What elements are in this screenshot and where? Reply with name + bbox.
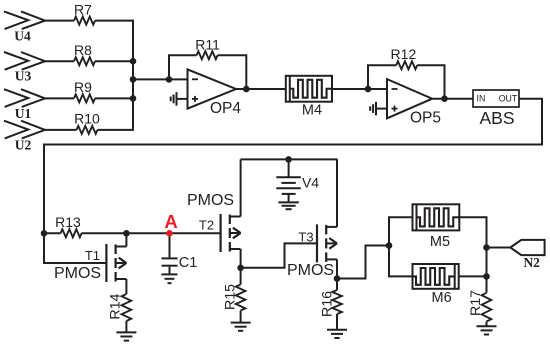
svg-text:R13: R13 [55, 214, 81, 230]
svg-text:A: A [164, 211, 177, 232]
svg-text:R15: R15 [222, 284, 238, 310]
svg-text:U2: U2 [15, 137, 32, 152]
svg-text:R9: R9 [74, 79, 92, 95]
svg-text:R7: R7 [74, 2, 92, 18]
svg-text:OP4: OP4 [210, 100, 241, 117]
svg-text:PMOS: PMOS [187, 192, 234, 209]
svg-text:V4: V4 [302, 175, 319, 191]
svg-text:C1: C1 [179, 255, 198, 271]
svg-text:IN: IN [477, 94, 486, 104]
svg-text:R10: R10 [74, 111, 100, 127]
svg-text:R17: R17 [468, 290, 484, 316]
svg-text:R14: R14 [108, 293, 124, 319]
svg-text:T1: T1 [85, 248, 100, 263]
svg-text:R11: R11 [195, 36, 220, 52]
svg-text:R12: R12 [391, 46, 417, 62]
svg-text:U1: U1 [15, 106, 32, 121]
svg-text:PMOS: PMOS [54, 265, 101, 282]
svg-text:PMOS: PMOS [287, 262, 334, 279]
svg-text:R8: R8 [74, 42, 92, 58]
svg-text:U3: U3 [15, 69, 32, 84]
svg-text:T3: T3 [298, 230, 313, 245]
svg-text:ABS: ABS [479, 108, 514, 128]
svg-text:R16: R16 [319, 291, 335, 317]
svg-text:M4: M4 [302, 103, 322, 119]
svg-text:T2: T2 [199, 217, 214, 232]
svg-text:U4: U4 [14, 28, 31, 43]
svg-text:OP5: OP5 [410, 109, 441, 126]
svg-text:M6: M6 [432, 290, 452, 306]
svg-text:N2: N2 [523, 255, 540, 270]
svg-text:OUT: OUT [499, 94, 518, 104]
svg-text:M5: M5 [430, 234, 450, 250]
